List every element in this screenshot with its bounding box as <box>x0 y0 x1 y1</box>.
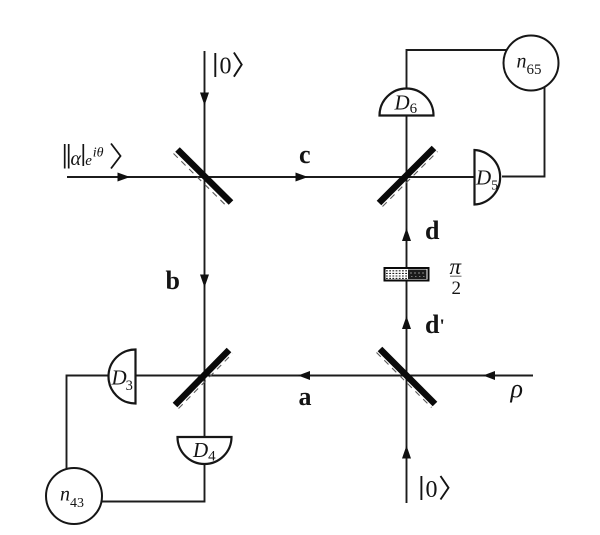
detector D5 dome <box>475 150 501 205</box>
counter n65 circle <box>504 36 559 91</box>
beamsplitter BS1 hairline <box>174 154 228 207</box>
svg-text:a: a <box>299 382 312 411</box>
svg-text:2: 2 <box>452 278 462 299</box>
wire: bottom horizontal beam from rho input through BS4 and BS3 to D3 <box>136 375 533 377</box>
wire: from D3 left side to corner then down to n43 <box>67 376 111 470</box>
svg-text:c: c <box>299 140 311 169</box>
wire: from D4 bottom down then left to n43 <box>102 464 205 502</box>
svg-text:e: e <box>85 153 92 169</box>
arrow right on alpha input <box>118 173 131 182</box>
arrow down on beam b <box>200 275 209 288</box>
svg-text:π: π <box>450 254 463 279</box>
svg-text:d: d <box>425 216 440 245</box>
wire: from D6 top up then right to n65 <box>407 50 509 89</box>
counter n43 circle <box>46 468 102 524</box>
arrow up on bottom vacuum input <box>402 446 411 459</box>
svg-text:b: b <box>166 266 180 295</box>
wire: top horizontal beam from alpha input through BS1 and BS2 to D5 <box>67 176 475 178</box>
phase shifter box <box>385 268 429 281</box>
svg-text:ρ: ρ <box>510 374 523 403</box>
label ket 0 top input <box>215 53 241 80</box>
label alpha coherent input ket <box>65 144 121 171</box>
beamsplitter BS3 (bottom-left) <box>175 350 229 405</box>
beamsplitter BS2 (top-right) <box>379 148 434 203</box>
beamsplitter BS4 (bottom-right) <box>380 349 435 404</box>
beamsplitter BS2 hairline <box>383 152 438 207</box>
detector D6 dome <box>380 89 434 116</box>
arrow right on beam c <box>296 173 309 182</box>
detector D4 dome <box>178 437 232 464</box>
wire: left vertical beam from top input through BS1 down to BS3 and D4 <box>204 51 206 437</box>
beamsplitter BS1 (top-left) <box>178 150 232 203</box>
arrow up on beam d <box>402 228 411 241</box>
wire: from D5 right side to corner then up to n65 <box>502 87 545 177</box>
wire: right vertical beam from D6 bottom down through BS2, phase shifter, BS4 to bottom input <box>406 116 408 504</box>
svg-text:α: α <box>71 148 82 170</box>
svg-text:0: 0 <box>220 53 232 79</box>
arrow left on beam a <box>298 371 310 380</box>
arrow down on top vacuum input <box>200 93 209 106</box>
beamsplitter BS3 hairline <box>179 354 233 409</box>
phase label pi over 2 <box>450 254 463 299</box>
label ket 0 bottom input <box>421 476 448 503</box>
arrow up on beam d' <box>402 316 411 329</box>
arrow left on rho input <box>483 371 495 380</box>
svg-text:iθ: iθ <box>93 146 104 161</box>
beamsplitter BS4 hairline <box>377 353 432 408</box>
svg-text:0: 0 <box>426 477 438 503</box>
detector D3 dome <box>109 350 136 404</box>
